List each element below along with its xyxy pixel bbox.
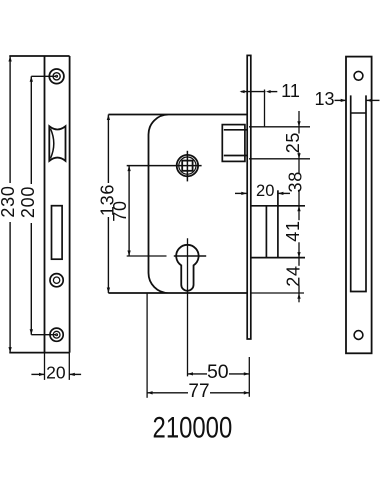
forend plate edge view	[247, 55, 251, 339]
right dimension column	[298, 111, 300, 302]
svg-text:38: 38	[285, 171, 305, 192]
euro cylinder profile	[176, 245, 198, 291]
svg-text:11: 11	[281, 81, 300, 101]
deadbolt cutout	[52, 206, 63, 260]
dim line 136	[107, 115, 110, 294]
screw hole top	[31, 69, 64, 84]
dim 20 bottom-left	[31, 373, 81, 376]
latch bolt side view	[222, 125, 247, 162]
lock case outline	[108, 115, 247, 294]
svg-text:77: 77	[188, 381, 209, 402]
dim 20 middle (deadbolt throw)	[235, 192, 290, 195]
svg-text:41: 41	[283, 220, 303, 241]
svg-text:25: 25	[283, 132, 303, 153]
faceplate width extension lines	[45, 353, 70, 380]
extension line forend bottom	[248, 357, 250, 397]
dim 13	[335, 99, 380, 102]
svg-text:20: 20	[46, 363, 66, 383]
strike plate screw top	[354, 71, 363, 80]
extension line cylinder centre	[127, 255, 167, 257]
strike plate screw bottom	[354, 331, 363, 340]
strike box plate outline	[346, 57, 372, 354]
svg-text:70: 70	[110, 200, 130, 221]
strike plate slot divider	[351, 112, 366, 114]
dim 77	[147, 391, 249, 394]
svg-text:13: 13	[314, 89, 334, 109]
follower (spindle hub)	[177, 151, 198, 182]
svg-text:20: 20	[256, 182, 274, 200]
dim line 70	[127, 166, 130, 256]
extension line case bottom right	[251, 292, 304, 294]
arrowheads on right column	[297, 121, 300, 298]
dim 50	[188, 372, 250, 375]
deadbolt side view	[251, 190, 305, 257]
svg-text:50: 50	[207, 361, 229, 383]
svg-text:200: 200	[18, 186, 38, 218]
extension line for 11	[264, 90, 266, 127]
dim 11	[240, 90, 278, 93]
cylinder centrelines	[174, 238, 206, 376]
svg-text:230: 230	[0, 185, 18, 217]
dim line 200	[30, 76, 33, 334]
extension line follower centre	[127, 165, 202, 167]
latch bolt cutout	[49, 126, 65, 161]
latch extension lines right	[249, 127, 310, 159]
screw hole bottom	[31, 328, 63, 341]
extension line case left bottom	[146, 293, 148, 398]
dim line 230	[8, 56, 11, 353]
svg-text:210000: 210000	[153, 411, 233, 444]
screw hole middle	[50, 274, 63, 287]
strike plate slot	[351, 95, 366, 291]
faceplate outline (front view)	[9, 56, 69, 353]
svg-text:24: 24	[284, 265, 304, 286]
